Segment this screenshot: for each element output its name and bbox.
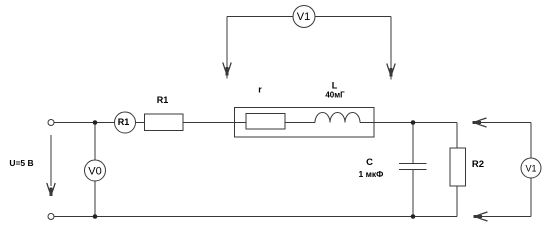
junction node top C <box>411 120 416 125</box>
svg-text:R2: R2 <box>472 159 484 170</box>
resistor r (inner) <box>246 114 285 130</box>
svg-text:V1: V1 <box>525 164 536 174</box>
junction node top V0 <box>93 120 98 125</box>
svg-text:V0: V0 <box>88 165 101 177</box>
junction node bottom V0 <box>93 214 98 219</box>
wire voltmeter V0 branch (top) <box>94 123 96 161</box>
wire right V1 vertical (bottom) <box>530 178 532 217</box>
terminal node top-left <box>48 120 54 126</box>
arrowhead right V1 probe top (left) <box>473 118 487 127</box>
wire right probe drop of V1 top <box>390 17 392 77</box>
wire R1 to box / inner resistor r <box>183 122 246 124</box>
wire node to capacitor C <box>412 123 414 164</box>
wire r to inductor L <box>285 122 315 124</box>
inductor L <box>315 113 360 123</box>
wire right V1 vertical (top) <box>530 123 532 159</box>
wire voltmeter V0 branch (bottom) <box>94 181 96 217</box>
junction node bottom C <box>411 214 416 219</box>
ammeter R1 circle <box>115 112 136 133</box>
voltmeter U1 top V1 circle <box>293 6 315 28</box>
wire R2 branch down (top) <box>456 123 458 149</box>
wire meter to resistor R1 <box>136 122 145 124</box>
wire left probe drop of V1 top <box>226 17 228 76</box>
wire right V1 probe top <box>478 122 531 124</box>
svg-text:1 мкФ: 1 мкФ <box>359 169 384 179</box>
voltmeter V1 right circle <box>521 158 541 178</box>
wire top rail: terminal to meter R1 <box>54 122 115 124</box>
capacitor C plates <box>399 163 427 165</box>
arrowhead right probe V1 top (down) <box>387 64 395 80</box>
wire right V1 probe bottom <box>478 216 531 218</box>
wire inductor to node C and corner R2 <box>360 122 457 124</box>
wire R2 branch down (bottom) <box>456 186 458 217</box>
svg-text:R1: R1 <box>118 117 130 127</box>
arrowhead left probe V1 top (down) <box>223 63 231 79</box>
resistor R2 <box>450 148 466 186</box>
arrow source polarity (down) <box>50 135 52 186</box>
wire bottom rail <box>54 216 457 218</box>
svg-text:40мГ: 40мГ <box>325 91 345 100</box>
wire voltmeter V1 top to right drop <box>315 16 391 18</box>
svg-text:L: L <box>332 81 338 91</box>
svg-text:V1: V1 <box>297 11 310 23</box>
wire top-left to voltmeter V1 top <box>227 16 293 18</box>
arrowhead right V1 probe bottom (left) <box>474 212 488 221</box>
resistor R1 <box>145 114 184 131</box>
svg-text:R1: R1 <box>157 95 169 105</box>
svg-text:C: C <box>366 157 373 168</box>
terminal node bottom-left <box>48 214 54 220</box>
svg-text:U=5 В: U=5 В <box>9 158 33 168</box>
wire capacitor C to bottom rail <box>412 170 414 217</box>
voltmeter V0 circle <box>85 160 106 181</box>
svg-text:r: r <box>258 85 262 95</box>
coil box outline <box>235 108 375 138</box>
